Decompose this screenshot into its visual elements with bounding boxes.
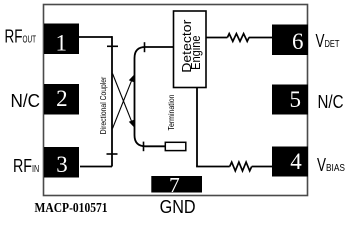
wire resistor R1 to pin 6 — [249, 37, 272, 39]
svg-text:GND: GND — [160, 197, 196, 217]
pin 3 pad — [44, 147, 79, 178]
pin 7 pad — [151, 176, 202, 193]
coupled line (bracket with rounded ends) — [135, 47, 174, 146]
svg-text:MACP-010571: MACP-010571 — [35, 201, 108, 216]
port tick on coupled line top — [144, 42, 146, 52]
package outline — [44, 5, 308, 196]
svg-text:4: 4 — [290, 149, 302, 174]
pin 5 pad — [272, 85, 308, 115]
svg-text:Directional Coupler: Directional Coupler — [99, 76, 108, 134]
svg-text:3: 3 — [56, 152, 68, 177]
svg-text:6: 6 — [292, 29, 304, 54]
svg-text:1: 1 — [56, 30, 68, 55]
svg-text:Engine: Engine — [188, 35, 203, 70]
pin 4 pad — [272, 147, 308, 177]
resistor R2 to Vbias — [230, 162, 252, 171]
detector engine label — [179, 19, 203, 73]
coupling arrow up-right — [113, 75, 135, 129]
svg-text:N/C: N/C — [318, 92, 344, 112]
port tick top of main line — [107, 45, 118, 47]
svg-text:N/C: N/C — [11, 91, 41, 111]
resistor R1 to Vdet — [227, 34, 249, 42]
wire detector to resistor R1 — [206, 37, 227, 39]
port tick on coupled line bottom — [143, 142, 145, 152]
wire down to resistor R2 — [196, 166, 230, 168]
pin 6 pad — [272, 25, 308, 56]
pin 1 pad — [44, 24, 79, 55]
wire coupler main line vertical — [111, 36, 113, 166]
termination resistor box — [165, 142, 186, 150]
svg-text:2: 2 — [56, 86, 68, 111]
wire coupler main line to pin3 — [80, 166, 112, 168]
svg-text:5: 5 — [289, 87, 301, 112]
coupling arrow down-right — [113, 74, 135, 128]
wire resistor R2 to pin 4 — [252, 166, 272, 168]
pin 2 pad — [44, 84, 79, 115]
termination label — [167, 95, 176, 131]
detector engine block — [174, 11, 207, 88]
directional coupler label — [99, 76, 108, 134]
svg-text:Termination: Termination — [167, 95, 176, 131]
port tick bottom of main line — [107, 153, 118, 155]
wire pin1 to coupler main line — [79, 36, 112, 38]
wire detector bottom down — [196, 88, 198, 167]
svg-text:7: 7 — [169, 173, 180, 197]
